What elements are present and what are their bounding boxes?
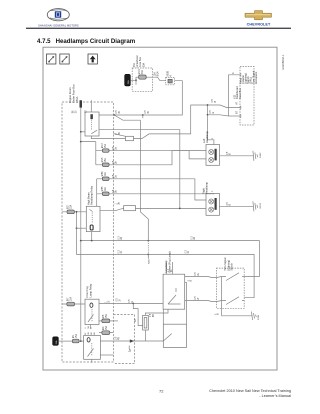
left headlamp box — [206, 145, 220, 166]
svg-text:2e: 2e — [198, 272, 200, 275]
svg-text:G: G — [132, 301, 134, 303]
svg-text:Ef9: Ef9 — [103, 326, 105, 330]
svg-text:10A: 10A — [104, 187, 107, 192]
switch blade inside — [168, 288, 181, 304]
relay K3 armature line — [91, 309, 93, 322]
svg-text:72: 72 — [159, 389, 164, 394]
svg-text:15A: 15A — [105, 325, 108, 330]
relay K1 pin 30 wire — [90, 100, 92, 112]
svg-text:Ef8: Ef8 — [103, 314, 105, 318]
label connector X50B — [168, 71, 173, 77]
relay K3 coil — [90, 303, 93, 307]
svg-text:Under Fuse Box: Under Fuse Box — [71, 84, 75, 103]
relay K2 coil — [90, 225, 93, 230]
wire low beam right — [109, 151, 206, 165]
svg-text:2a: 2a — [116, 147, 118, 150]
svg-text:87: 87 — [85, 332, 87, 335]
bus connector bar — [80, 100, 83, 107]
splice on bus 1 — [147, 240, 149, 242]
switch right pin wire — [185, 281, 187, 283]
svg-text:15A: 15A — [105, 314, 108, 319]
label low beam feed — [116, 110, 150, 114]
leveling switch blade — [163, 334, 171, 341]
wire DRL down feed — [99, 130, 180, 209]
svg-text:0.5: 0.5 — [227, 151, 229, 155]
fuse EF7 — [67, 302, 75, 306]
ground wire left headlamp — [219, 155, 252, 157]
label feed wires — [113, 146, 118, 193]
relay K2 box — [86, 206, 100, 231]
svg-text:0.5: 0.5 — [113, 189, 115, 193]
svg-text:- Learner’s Manual: - Learner’s Manual — [259, 394, 291, 398]
bus wire 2 — [77, 212, 255, 298]
svg-text:30: 30 — [148, 110, 150, 113]
svg-text:X50B: X50B — [168, 71, 170, 77]
label K3 bottom pins — [85, 325, 93, 328]
splice on switch feed — [132, 303, 134, 305]
battery feed blob B+ — [125, 74, 131, 86]
fuse rail lower — [97, 179, 103, 207]
svg-text:2f: 2f — [108, 300, 110, 302]
svg-text:CHEVROLET: CHEVROLET — [247, 23, 271, 27]
wire K2 output to right headlamp — [100, 208, 206, 211]
svg-text:1: 1 — [116, 203, 118, 205]
svg-text:30: 30 — [119, 110, 121, 113]
svg-text:0.5: 0.5 — [145, 110, 147, 114]
svg-text:B: B — [190, 279, 192, 281]
svg-text:2g: 2g — [118, 337, 120, 340]
column switch dashed box — [216, 268, 244, 308]
Chevrolet bowtie — [245, 11, 272, 20]
relay K3 coil bottom stub — [89, 325, 91, 330]
wire module up to switch output — [186, 282, 188, 324]
splice stub with label — [147, 254, 149, 258]
fuse EF9 — [102, 331, 110, 335]
relay K4 switch blade — [88, 349, 94, 357]
svg-text:0.5: 0.5 — [195, 272, 197, 276]
fuse EF54 — [102, 177, 109, 181]
svg-text:2f: 2f — [119, 299, 121, 301]
svg-text:10A: 10A — [69, 297, 72, 302]
svg-text:SHANGHAI GENERAL MOTORS: SHANGHAI GENERAL MOTORS — [38, 25, 79, 28]
legend icon: power feed square 2 — [60, 54, 69, 64]
svg-text:2b: 2b — [116, 161, 118, 164]
label K4 output wire — [115, 336, 120, 340]
wire EF7 to K3 — [62, 303, 85, 305]
svg-text:15A: 15A — [55, 340, 58, 344]
svg-text:30: 30 — [88, 332, 90, 335]
connector box C2 — [124, 206, 136, 211]
label wedge W1 — [116, 131, 121, 204]
svg-text:G201: G201 — [258, 314, 260, 320]
svg-text:B: B — [230, 153, 232, 155]
svg-text:0.5: 0.5 — [129, 299, 131, 303]
svg-text:0.5: 0.5 — [115, 336, 117, 340]
relay K4 output wire — [100, 340, 163, 342]
label lamp ground wires — [227, 151, 232, 205]
fuse EF2 — [67, 210, 74, 214]
link switch to leveling module — [162, 309, 164, 324]
svg-text:Headlamp Relay: Headlamp Relay — [90, 185, 94, 205]
svg-text:8: 8 — [116, 133, 118, 135]
X11 dashed enclosure — [240, 66, 254, 125]
ground G102 — [252, 151, 258, 161]
svg-text:4.7.5 Headlamps Circuit Diag: 4.7.5 Headlamps Circuit Diagram — [37, 38, 136, 45]
relay K1 coil — [90, 114, 93, 119]
svg-text:2b: 2b — [116, 190, 118, 193]
svg-text:50: 50 — [88, 325, 90, 328]
splice on bus 2 — [147, 254, 149, 256]
svg-text:Ef13: Ef13 — [102, 143, 104, 148]
relay K4 coil — [87, 338, 90, 342]
svg-text:S204: S204 — [149, 258, 151, 264]
svg-text:2c: 2c — [188, 250, 190, 253]
svg-text:Fuse Box: Fuse Box — [238, 87, 242, 99]
svg-text:1: 1 — [106, 301, 108, 303]
label relay K4 pins — [85, 332, 96, 335]
svg-text:0.5: 0.5 — [210, 110, 212, 114]
fuse EF15 — [102, 163, 109, 167]
fuse rail upper — [81, 142, 103, 165]
svg-text:15A: 15A — [154, 72, 157, 77]
relay K3 box — [85, 299, 99, 324]
low beam bulb — [209, 199, 214, 204]
svg-text:15A: 15A — [70, 204, 73, 209]
relay K3 switch blade — [88, 315, 94, 323]
node splice on DRL feed — [207, 104, 209, 106]
svg-text:2f: 2f — [198, 297, 200, 299]
battery blob 2 — [53, 337, 59, 346]
wire coil feed left — [81, 131, 85, 133]
svg-text:X: X — [85, 327, 87, 329]
svg-text:1: 1 — [212, 190, 214, 192]
svg-text:Fuse Box: Fuse Box — [139, 56, 142, 67]
svg-text:30A: 30A — [142, 63, 145, 68]
svg-text:G: G — [213, 112, 215, 114]
switch to column switch lower — [185, 301, 222, 302]
svg-text:B2: B2 — [153, 313, 155, 317]
svg-text:A7: A7 — [236, 101, 239, 105]
legend icon: up arrow square — [88, 54, 97, 64]
wire X11 pin B7 — [228, 115, 240, 117]
label switch output — [188, 272, 200, 300]
svg-text:30A: 30A — [141, 70, 144, 75]
svg-text:Lamp Relay: Lamp Relay — [88, 283, 92, 298]
svg-text:0.5: 0.5 — [212, 98, 214, 102]
svg-text:2c: 2c — [121, 250, 123, 253]
svg-text:G103: G103 — [260, 202, 262, 208]
svg-text:1: 1 — [212, 137, 214, 139]
X11 pin ticks — [240, 73, 242, 118]
ground wire right headlamp — [219, 205, 252, 207]
svg-text:Ef7: Ef7 — [68, 297, 70, 301]
relay K2 coil feed — [77, 227, 87, 229]
svg-text:E030B002-1: E030B002-1 — [281, 54, 285, 69]
header rule — [26, 28, 291, 29]
svg-text:Ef55: Ef55 — [102, 186, 104, 191]
node splice on IP feed — [207, 114, 209, 116]
terminal bar — [215, 198, 217, 210]
svg-text:Ef14: Ef14 — [157, 71, 159, 76]
diagonal drop from boundary junction — [114, 115, 140, 120]
svg-text:Headlamp: Headlamp — [205, 182, 209, 194]
wire low beam left — [109, 151, 206, 159]
relay K2 armature line — [91, 213, 93, 224]
svg-text:X2: X2 — [135, 318, 137, 322]
svg-text:0.5: 0.5 — [117, 297, 119, 301]
svg-text:Headlamp: Headlamp — [205, 131, 209, 143]
lower contact — [222, 297, 245, 305]
vertical drop from low beam feed — [141, 120, 149, 240]
label DRL wires — [210, 72, 238, 192]
label bus exits — [118, 236, 196, 254]
wire EF2 to K2 — [62, 211, 86, 213]
splice link dashed — [147, 241, 149, 255]
wire B+ to fuse — [131, 77, 153, 80]
tick under arrow — [128, 346, 130, 350]
fuse EF8 — [102, 319, 110, 323]
label relay K1 pins — [73, 110, 88, 114]
svg-text:2g: 2g — [130, 349, 132, 352]
svg-text:G102: G102 — [260, 152, 262, 158]
direction arrow on wire — [130, 339, 134, 342]
svg-text:0.5: 0.5 — [195, 296, 197, 300]
label K3 output wire — [117, 297, 122, 301]
svg-text:10A: 10A — [104, 172, 107, 177]
svg-text:Switch: Switch — [230, 263, 234, 271]
terminal bar — [215, 149, 217, 161]
wire fuse to connector — [153, 77, 166, 81]
schematic border — [43, 47, 277, 370]
switch pin stubs — [166, 262, 172, 274]
SGM logo ellipse — [47, 9, 69, 21]
svg-text:15A: 15A — [75, 334, 78, 339]
relay K2 switch blade — [90, 209, 93, 211]
high beam bulb — [209, 158, 214, 163]
right headlamp box — [206, 194, 220, 216]
svg-text:B: B — [230, 203, 232, 205]
boundary junction on K1 feed — [113, 114, 115, 116]
svg-text:30A: 30A — [127, 80, 130, 84]
relay K4 armature line — [91, 343, 93, 356]
fuse box X51 dashed enclosure — [132, 68, 152, 91]
svg-text:2a: 2a — [116, 175, 118, 178]
resistor stub down — [145, 330, 147, 341]
svg-text:Engine Room: Engine Room — [68, 87, 72, 103]
svg-text:30: 30 — [119, 131, 121, 134]
svg-text:86: 86 — [94, 332, 96, 335]
low beam bulb — [209, 150, 214, 155]
svg-text:2b: 2b — [118, 201, 120, 204]
fuse EF55 — [102, 192, 109, 196]
wire EF8 out — [110, 320, 118, 322]
relay K4 box — [84, 336, 101, 360]
relay K1 output wire — [91, 136, 125, 139]
svg-text:Ef54: Ef54 — [102, 171, 104, 176]
connector X50B dashed square — [166, 77, 175, 84]
relay K4 bottom pin stub — [91, 359, 93, 363]
legend icon: power feed square 1 — [47, 54, 56, 64]
svg-text:15A: 15A — [104, 144, 107, 149]
relay K2 coil to bus — [91, 232, 93, 241]
headlamp switch box — [163, 274, 185, 309]
switch to column switch upper — [185, 277, 222, 278]
relay K1 switch blade — [91, 130, 97, 134]
main feed bus — [80, 100, 82, 341]
svg-text:87: 87 — [86, 110, 88, 113]
svg-text:0.5: 0.5 — [116, 110, 118, 114]
ground wire G201 — [222, 312, 257, 320]
tap to leveling resistor — [133, 304, 142, 326]
svg-text:Ef2: Ef2 — [68, 205, 70, 209]
label switch pins — [169, 268, 174, 272]
label X51 box — [133, 55, 145, 67]
svg-text:B: B — [215, 100, 217, 102]
high beam bulb — [209, 207, 214, 212]
svg-text:Ef14: Ef14 — [139, 69, 141, 74]
label X50A underhood fuse box (vertical 3 lines) — [68, 84, 79, 103]
svg-text:Ef1: Ef1 — [73, 334, 75, 338]
label X11 loads — [238, 70, 258, 84]
svg-text:85: 85 — [91, 332, 93, 335]
svg-text:30: 30 — [75, 110, 77, 113]
wire blob to fuse EF16 — [58, 340, 72, 342]
dashed enclosure extension bottom-right — [114, 315, 135, 364]
label fuse EF14 feed — [139, 69, 159, 77]
underhood fuse box X50A dashed enclosure — [62, 102, 114, 362]
upper contact — [222, 273, 245, 281]
relay K4 bottom stub — [100, 354, 113, 356]
relay K1 box — [85, 112, 99, 136]
svg-text:86: 86 — [73, 110, 75, 113]
svg-text:15A: 15A — [104, 158, 107, 163]
relay K3 lower output — [99, 320, 102, 322]
wire EF9 stubs — [99, 332, 113, 334]
svg-text:B7: B7 — [237, 110, 239, 114]
leveling resistor body — [143, 315, 149, 330]
wire connector to corner — [99, 81, 182, 115]
wire into X11 pin A7 — [208, 105, 241, 108]
wire to left headlamp top pin — [208, 115, 214, 145]
wire vertical feed to X11 — [134, 75, 241, 139]
svg-text:0.5: 0.5 — [150, 313, 152, 317]
ground G103 — [252, 201, 258, 211]
svg-text:B: B — [218, 313, 220, 315]
switch left pin wire from relay K3 — [99, 303, 163, 305]
bus wire 1 — [81, 241, 260, 277]
label fuses — [68, 143, 109, 338]
leveling module box — [163, 324, 186, 347]
fuse EF13 — [102, 149, 109, 153]
svg-text:Ef15: Ef15 — [102, 157, 104, 162]
contact common link — [221, 277, 223, 316]
fuse EF16 — [72, 339, 79, 343]
wire high beam right — [109, 193, 214, 195]
relay K1 armature line — [91, 120, 93, 131]
label ground wire G201 — [215, 313, 220, 315]
svg-text:Chevrolet 2010 New Sail New Te: Chevrolet 2010 New Sail New Technical Tr… — [209, 389, 291, 393]
svg-text:2d: 2d — [121, 236, 123, 239]
switch bottom pin to resistor — [146, 309, 169, 315]
splice tap on K1 feed — [142, 114, 144, 116]
wire EF16 to K4 — [79, 340, 83, 342]
wire high beam left — [109, 179, 206, 200]
connector lead diagonal — [114, 134, 126, 137]
svg-text:2d: 2d — [194, 236, 196, 239]
svg-text:4: 4 — [233, 72, 235, 74]
svg-text:0.5: 0.5 — [227, 201, 229, 205]
fuse EF14 — [139, 75, 147, 79]
svg-text:Instrument: Instrument — [254, 71, 258, 84]
svg-text:4: 4 — [170, 75, 172, 77]
connector box C1 — [126, 136, 134, 140]
junction splice — [135, 79, 137, 81]
svg-text:4: 4 — [91, 327, 93, 329]
label leveling resistor — [106, 299, 155, 352]
